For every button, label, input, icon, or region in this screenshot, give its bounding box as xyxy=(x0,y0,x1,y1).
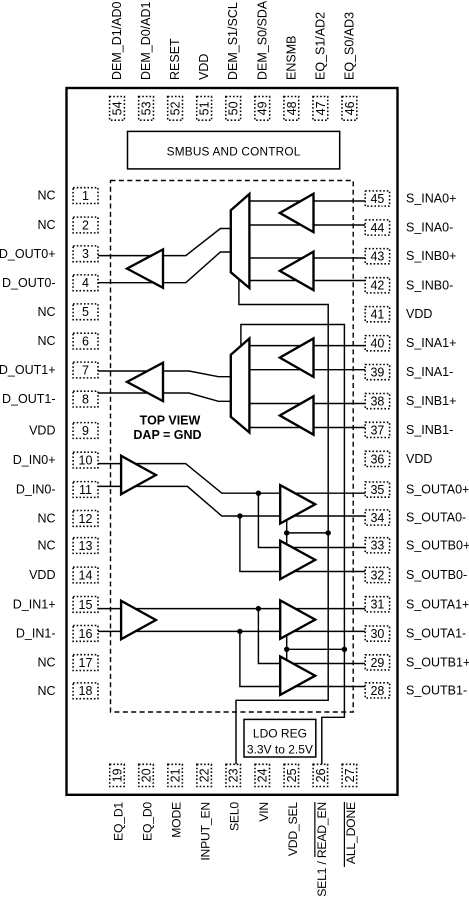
svg-text:22: 22 xyxy=(198,768,212,782)
wire SEL0 net: mux M1 select to pin 23 xyxy=(236,276,328,766)
pin 36 box (VDD) xyxy=(365,451,389,466)
svg-text:S_OUTA1+: S_OUTA1+ xyxy=(406,597,469,611)
svg-text:50: 50 xyxy=(227,101,241,115)
wire mux M1 output+ to buffer OUT0 to pin3 D_OUT0+ xyxy=(98,229,231,256)
wire branch to buffer S_OUTB0 - input, to pin32 xyxy=(240,516,366,572)
svg-text:MODE: MODE xyxy=(170,802,184,838)
wire pin10 D_IN0+ through buffers to pin35 S_OUTA0+ xyxy=(98,464,366,494)
svg-text:DEM_D1/AD0: DEM_D1/AD0 xyxy=(110,1,124,80)
svg-text:INPUT_EN: INPUT_EN xyxy=(199,802,213,861)
svg-text:VIN: VIN xyxy=(257,802,271,822)
svg-text:VDD: VDD xyxy=(406,452,432,466)
svg-text:EQ_D0: EQ_D0 xyxy=(141,802,155,841)
svg-text:18: 18 xyxy=(79,684,93,698)
wire branch to buffer S_OUTB1 - input, to pin28 xyxy=(240,631,366,686)
pin 42 box (S_INB0-) xyxy=(365,278,389,293)
wire pin42 S_INB0- to mux M1 input xyxy=(249,280,365,282)
wire pin43 S_INB0+ to mux M1 input xyxy=(249,257,365,259)
svg-text:S_INB1-: S_INB1- xyxy=(406,423,453,437)
pin 5 box (NC) xyxy=(73,304,98,320)
pin 1 box (NC) xyxy=(73,188,98,204)
pin 11 box (D_IN0-) xyxy=(73,482,98,498)
svg-text:19: 19 xyxy=(111,768,125,782)
svg-text:NC: NC xyxy=(37,539,55,553)
pin 48 box (ENSMB) xyxy=(284,97,299,121)
svg-text:DEM_S0/SDA: DEM_S0/SDA xyxy=(255,0,269,80)
svg-text:D_IN0+: D_IN0+ xyxy=(13,453,56,467)
svg-text:RESET: RESET xyxy=(168,38,182,80)
svg-text:LDO REG: LDO REG xyxy=(253,727,307,741)
svg-text:37: 37 xyxy=(370,423,384,437)
pin 14 box (VDD) xyxy=(73,567,98,583)
wire enable tie between S_OUTA1 and S_OUTB1 xyxy=(286,634,288,662)
pin 18 box (NC) xyxy=(73,683,98,699)
wire pin39 S_INA1- to mux M2 input xyxy=(249,369,365,371)
wire enable tie between S_OUTA0 and S_OUTB0 xyxy=(286,518,288,547)
pin 46 box (EQ_S0/AD3) xyxy=(342,97,357,121)
wire SEL1 net: pin 26 to mux M2 select xyxy=(241,325,345,767)
svg-text:35: 35 xyxy=(370,483,384,497)
svg-text:EQ_S1/AD2: EQ_S1/AD2 xyxy=(313,12,327,80)
output buffer SOUTA1 (pins 31/30) xyxy=(280,600,315,638)
svg-text:DEM_D0/AD1: DEM_D0/AD1 xyxy=(139,1,153,80)
input buffer IN_B0 (pins 43/42) xyxy=(280,252,314,290)
svg-text:29: 29 xyxy=(370,656,384,670)
svg-text:D_IN0-: D_IN0- xyxy=(16,483,56,497)
svg-text:VDD_SEL: VDD_SEL xyxy=(286,802,300,857)
wire branch to buffer S_OUTB1 + input, to pin29 xyxy=(258,609,365,664)
svg-text:3.3V to 2.5V: 3.3V to 2.5V xyxy=(247,743,313,757)
wire branch to buffer S_OUTB0 + input, to pin33 xyxy=(258,493,365,547)
input buffer IN_A1 (pins 40/39) xyxy=(280,338,314,376)
svg-text:D_OUT1-: D_OUT1- xyxy=(2,392,55,406)
svg-text:45: 45 xyxy=(370,192,384,206)
pin 49 box (DEM_S0/SDA) xyxy=(255,97,270,121)
wire mux M2 output+ to buffer OUT1 to pin7 D_OUT1+ xyxy=(98,371,231,377)
svg-text:NC: NC xyxy=(37,189,55,203)
LDO REG block xyxy=(244,719,316,757)
svg-text:S_OUTB1+: S_OUTB1+ xyxy=(406,655,469,669)
svg-text:ALL_DONE: ALL_DONE xyxy=(344,802,358,864)
svg-text:S_OUTB0+: S_OUTB0+ xyxy=(406,538,469,552)
pin 50 box (DEM_S1/SCL) xyxy=(226,97,241,121)
pin 38 box (S_INB1+) xyxy=(365,394,389,409)
wire pin45 S_INA0+ to mux M1 input xyxy=(249,200,365,202)
wire enable tap to SEL0 net xyxy=(287,532,329,534)
pin 9 box (VDD) xyxy=(73,423,98,439)
pin 40 box (S_INA1+) xyxy=(365,336,389,351)
svg-text:DAP = GND: DAP = GND xyxy=(133,428,201,442)
svg-text:S_INB0-: S_INB0- xyxy=(406,278,453,292)
svg-text:S_OUTA1-: S_OUTA1- xyxy=(406,627,466,641)
pin 53 box (DEM_D0/AD1) xyxy=(139,97,154,121)
output buffer SOUTA0 (pins 35/34) xyxy=(280,485,315,523)
pin 24 box (VIN) xyxy=(255,764,270,786)
svg-text:ENSMB: ENSMB xyxy=(284,36,298,80)
svg-text:VDD: VDD xyxy=(29,424,55,438)
svg-text:5: 5 xyxy=(82,305,89,319)
svg-text:VDD: VDD xyxy=(29,568,55,582)
pin 28 box (S_OUTB1-) xyxy=(365,683,389,698)
pin 30 box (S_OUTA1-) xyxy=(365,626,389,641)
pin 44 box (S_INA0-) xyxy=(365,220,389,235)
junction D_IN0+ fanout xyxy=(256,491,261,496)
mux M1 (2:1 channel 0) xyxy=(231,194,250,288)
pin 39 box (S_INA1-) xyxy=(365,365,389,380)
pin 29 box (S_OUTB1+) xyxy=(365,655,389,670)
svg-text:15: 15 xyxy=(79,598,93,612)
svg-text:EQ_D1: EQ_D1 xyxy=(112,802,126,841)
pin 16 box (D_IN1-) xyxy=(73,626,98,642)
output buffer SOUTB1 (pins 29/28) xyxy=(280,657,315,695)
pin 35 box (S_OUTA0+) xyxy=(365,482,389,497)
svg-text:40: 40 xyxy=(370,337,384,351)
svg-text:49: 49 xyxy=(256,101,270,115)
junction enable1 tie xyxy=(284,647,289,652)
output buffer OUT1 (pins 7/8) xyxy=(127,363,163,401)
svg-text:28: 28 xyxy=(370,684,384,698)
pin 26 box (SEL1 / READ_EN) xyxy=(313,764,328,786)
svg-text:4: 4 xyxy=(82,276,89,290)
svg-text:43: 43 xyxy=(370,250,384,264)
wire pin44 S_INA0- to mux M1 input xyxy=(249,224,365,226)
svg-text:9: 9 xyxy=(82,424,89,438)
overline for READ_EN part (pin 26) xyxy=(314,802,316,857)
svg-text:52: 52 xyxy=(169,101,183,115)
svg-text:53: 53 xyxy=(140,101,154,115)
wire pin11 D_IN0- through buffers to pin34 S_OUTA0- xyxy=(98,486,366,516)
svg-text:NC: NC xyxy=(37,684,55,698)
SMBUS AND CONTROL block xyxy=(128,131,340,169)
wire pin40 S_INA1+ to mux M2 input xyxy=(249,345,365,347)
pin 7 box (D_OUT1+) xyxy=(73,362,98,378)
svg-text:D_OUT0-: D_OUT0- xyxy=(2,276,55,290)
pin 33 box (S_OUTB0+) xyxy=(365,538,389,553)
mux M2 (2:1 channel 1) xyxy=(231,339,250,433)
junction enable0 on SEL0 net xyxy=(326,530,331,535)
pin 34 box (S_OUTA0-) xyxy=(365,510,389,525)
svg-text:S_OUTA0-: S_OUTA0- xyxy=(406,511,466,525)
svg-text:44: 44 xyxy=(370,221,384,235)
svg-text:DEM_S1/SCL: DEM_S1/SCL xyxy=(226,2,240,80)
svg-text:S_INA0-: S_INA0- xyxy=(406,221,453,235)
pin 19 box (EQ_D1) xyxy=(110,764,125,786)
svg-text:54: 54 xyxy=(111,101,125,115)
pin 2 box (NC) xyxy=(73,217,98,233)
junction D_IN0- fanout xyxy=(237,513,242,518)
svg-text:17: 17 xyxy=(79,656,93,670)
svg-text:31: 31 xyxy=(370,598,384,612)
pin 32 box (S_OUTB0-) xyxy=(365,567,389,582)
svg-text:S_INB0+: S_INB0+ xyxy=(406,249,456,263)
svg-text:25: 25 xyxy=(285,768,299,782)
pin 3 box (D_OUT0+) xyxy=(73,246,98,262)
wire pin15 D_IN1+ through buffers to pin31 S_OUTA1+ xyxy=(98,608,366,610)
svg-text:11: 11 xyxy=(79,483,92,497)
svg-text:VDD: VDD xyxy=(197,54,211,80)
svg-text:D_IN1-: D_IN1- xyxy=(16,626,56,640)
svg-text:36: 36 xyxy=(370,452,384,466)
input buffer DIN1 (pins 15/16) xyxy=(121,601,156,639)
svg-text:D_IN1+: D_IN1+ xyxy=(13,597,56,611)
svg-text:27: 27 xyxy=(343,768,357,782)
svg-text:24: 24 xyxy=(256,768,270,782)
svg-text:42: 42 xyxy=(370,279,384,293)
pin 13 box (NC) xyxy=(73,538,98,554)
svg-text:41: 41 xyxy=(370,308,384,322)
svg-text:33: 33 xyxy=(370,539,384,553)
svg-text:S_OUTB0-: S_OUTB0- xyxy=(406,568,467,582)
junction enable0 tie xyxy=(284,530,289,535)
svg-text:NC: NC xyxy=(37,218,55,232)
svg-text:14: 14 xyxy=(79,568,93,582)
svg-text:38: 38 xyxy=(370,395,384,409)
svg-text:51: 51 xyxy=(198,101,212,115)
svg-text:47: 47 xyxy=(314,101,328,115)
pin 45 box (S_INA0+) xyxy=(365,191,389,206)
pin 31 box (S_OUTA1+) xyxy=(365,597,389,612)
svg-text:48: 48 xyxy=(285,101,299,115)
pin 41 box (VDD) xyxy=(365,307,389,322)
chip body outline xyxy=(67,88,398,795)
wire mux M2 output- to buffer OUT1 to pin8 D_OUT1- xyxy=(98,393,231,401)
svg-text:2: 2 xyxy=(82,218,89,232)
svg-text:S_INA0+: S_INA0+ xyxy=(406,192,456,206)
pin 15 box (D_IN1+) xyxy=(73,597,98,613)
svg-text:S_INA1-: S_INA1- xyxy=(406,365,453,379)
svg-text:SEL0: SEL0 xyxy=(228,802,242,831)
svg-text:S_OUTA0+: S_OUTA0+ xyxy=(406,483,469,497)
pin 43 box (S_INB0+) xyxy=(365,249,389,264)
svg-text:20: 20 xyxy=(140,768,154,782)
svg-text:D_OUT1+: D_OUT1+ xyxy=(0,363,56,377)
input buffer IN_B1 (pins 38/37) xyxy=(280,396,314,434)
svg-text:10: 10 xyxy=(79,454,93,468)
pin 4 box (D_OUT0-) xyxy=(73,275,98,291)
pin 21 box (MODE) xyxy=(168,764,183,786)
pin 47 box (EQ_S1/AD2) xyxy=(313,97,328,121)
svg-text:S_INB1+: S_INB1+ xyxy=(406,394,456,408)
wire pin38 S_INB1+ to mux M2 input xyxy=(249,403,365,405)
pin 20 box (EQ_D0) xyxy=(139,764,154,786)
pin 51 box (VDD) xyxy=(197,97,212,121)
svg-text:6: 6 xyxy=(82,335,89,349)
svg-text:23: 23 xyxy=(227,768,241,782)
svg-text:16: 16 xyxy=(79,627,93,641)
svg-text:30: 30 xyxy=(370,627,384,641)
svg-text:21: 21 xyxy=(169,768,183,782)
overline for ALL_DONE (pin 27) xyxy=(343,802,345,867)
svg-text:3: 3 xyxy=(82,247,89,261)
svg-text:34: 34 xyxy=(370,511,384,525)
svg-text:NC: NC xyxy=(37,305,55,319)
wire mux M1 output- to buffer OUT0 to pin4 D_OUT0- xyxy=(98,252,231,283)
pin 6 box (NC) xyxy=(73,333,98,349)
junction enable1 on SEL1 net xyxy=(342,647,347,652)
svg-text:SEL1 / READ_EN: SEL1 / READ_EN xyxy=(315,802,329,897)
svg-text:NC: NC xyxy=(37,334,55,348)
pin 52 box (RESET) xyxy=(168,97,183,121)
wire enable tap to SEL1 net xyxy=(287,648,345,650)
svg-text:39: 39 xyxy=(370,366,384,380)
output buffer OUT0 (pins 3/4) xyxy=(127,249,163,287)
wire pin37 S_INB1- to mux M2 input xyxy=(249,427,365,429)
pin 37 box (S_INB1-) xyxy=(365,422,389,437)
svg-text:46: 46 xyxy=(343,101,357,115)
pin 27 box (ALL_DONE) xyxy=(342,764,357,786)
pin 8 box (D_OUT1-) xyxy=(73,391,98,407)
svg-text:8: 8 xyxy=(82,393,89,407)
svg-text:7: 7 xyxy=(82,363,89,377)
input buffer DIN0 (pins 10/11) xyxy=(121,456,156,494)
pin 23 box (SEL0) xyxy=(226,764,241,786)
svg-text:12: 12 xyxy=(79,512,93,526)
pin 54 box (DEM_D1/AD0) xyxy=(110,97,125,121)
pin 17 box (NC) xyxy=(73,655,98,671)
pin 12 box (NC) xyxy=(73,511,98,527)
pin 22 box (INPUT_EN) xyxy=(197,764,212,786)
pin 25 box (VDD_SEL) xyxy=(284,764,299,786)
svg-text:S_INA1+: S_INA1+ xyxy=(406,336,456,350)
svg-text:26: 26 xyxy=(314,768,328,782)
svg-text:SMBUS AND CONTROL: SMBUS AND CONTROL xyxy=(167,145,301,159)
svg-text:13: 13 xyxy=(79,539,93,553)
junction D_IN1+ fanout xyxy=(256,606,261,611)
svg-text:1: 1 xyxy=(82,189,89,203)
svg-text:D_OUT0+: D_OUT0+ xyxy=(0,247,56,261)
pin 10 box (D_IN0+) xyxy=(73,452,98,468)
output buffer SOUTB0 (pins 33/32) xyxy=(280,541,315,579)
svg-text:32: 32 xyxy=(370,568,384,582)
svg-text:VDD: VDD xyxy=(406,307,432,321)
svg-text:EQ_S0/AD3: EQ_S0/AD3 xyxy=(342,12,356,80)
wire pin16 D_IN1- through buffers to pin30 S_OUTA1- xyxy=(98,630,366,632)
svg-text:NC: NC xyxy=(37,656,55,670)
junction D_IN1- fanout xyxy=(237,629,242,634)
svg-text:NC: NC xyxy=(37,511,55,525)
svg-text:TOP VIEW: TOP VIEW xyxy=(140,414,201,428)
svg-text:S_OUTB1-: S_OUTB1- xyxy=(406,683,467,697)
input buffer IN_A0 (pins 45/44) xyxy=(280,194,314,232)
inner dashed core boundary xyxy=(111,181,354,713)
